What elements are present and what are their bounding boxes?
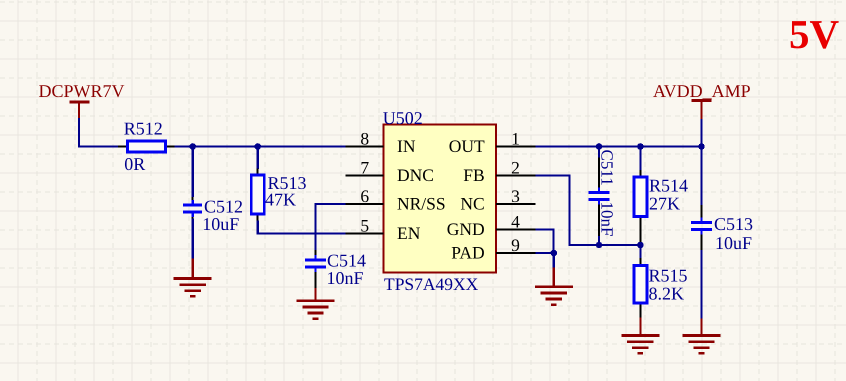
node junction OUT-R514 — [637, 143, 644, 150]
label 0R — [124, 154, 145, 174]
svg-text:NC: NC — [460, 194, 484, 214]
wire NR/SS to C514 — [316, 204, 346, 250]
svg-text:10uF: 10uF — [715, 233, 752, 253]
svg-text:EN: EN — [397, 223, 421, 243]
svg-text:NR/SS: NR/SS — [397, 194, 446, 214]
label C512 — [204, 196, 243, 216]
label C511 (rotated) — [598, 150, 617, 186]
svg-text:47K: 47K — [265, 189, 296, 209]
node junction FB-R514-R515 — [637, 242, 644, 249]
node junction OUT-AVDD — [698, 143, 705, 150]
svg-text:5V: 5V — [789, 11, 840, 57]
node junction IN-R513 — [254, 143, 261, 150]
svg-text:FB: FB — [463, 165, 484, 185]
svg-text:AVDD_AMP: AVDD_AMP — [653, 81, 751, 101]
svg-text:7: 7 — [360, 157, 369, 177]
label R514 — [649, 176, 688, 196]
label 10nF (C514) — [327, 268, 364, 288]
ground GND PAD — [535, 268, 573, 305]
capacitor C512 — [183, 197, 202, 219]
wire R513 to EN pin 5 — [258, 221, 346, 234]
svg-text:C513: C513 — [714, 214, 753, 234]
label 8.2K — [649, 284, 685, 304]
net label 5V — [789, 11, 840, 57]
label U502 — [383, 108, 423, 128]
svg-text:PAD: PAD — [451, 243, 484, 263]
wire OUT rail — [536, 145, 703, 147]
svg-text:1: 1 — [511, 128, 520, 148]
pin 2 (FB) — [463, 157, 535, 185]
label 10uF (C512) — [202, 214, 239, 234]
wire PAD to ground — [553, 253, 555, 268]
svg-text:27K: 27K — [649, 194, 680, 214]
wire PAD pin9 — [536, 252, 555, 254]
pin 4 (GND) — [447, 211, 536, 239]
power port DCPWR7V — [39, 81, 125, 119]
label R513 — [268, 173, 307, 193]
svg-text:8: 8 — [360, 128, 369, 148]
label 10uF (C513) — [715, 233, 752, 253]
svg-text:R514: R514 — [649, 176, 688, 196]
svg-text:TPS7A49XX: TPS7A49XX — [384, 274, 479, 294]
pin 3 (NC) — [460, 186, 535, 214]
svg-text:DNC: DNC — [397, 165, 434, 185]
wire R513 top — [257, 147, 259, 170]
svg-text:4: 4 — [511, 211, 520, 231]
svg-text:9: 9 — [511, 235, 520, 255]
label R512 — [124, 119, 163, 139]
pin 9 (PAD) — [451, 235, 535, 263]
label C514 — [327, 250, 366, 270]
label 10nF (C511, rotated) — [598, 202, 617, 237]
label R515 — [649, 266, 688, 286]
svg-text:DCPWR7V: DCPWR7V — [39, 81, 125, 101]
capacitor C514 — [305, 250, 326, 289]
wire R514-R515 node — [639, 242, 641, 259]
node junction OUT-C511 — [596, 143, 603, 150]
wire FB net — [536, 176, 641, 246]
capacitor C511 — [589, 158, 610, 237]
svg-text:R512: R512 — [124, 119, 163, 139]
resistor R512 — [118, 141, 175, 152]
node junction IN-C512 — [189, 143, 196, 150]
svg-text:U502: U502 — [383, 108, 423, 128]
label C513 — [714, 214, 753, 234]
svg-text:3: 3 — [511, 186, 520, 206]
ground GND C514 — [297, 288, 335, 319]
ground GND R515 — [621, 318, 659, 354]
wire C511 top — [598, 147, 600, 159]
svg-text:8.2K: 8.2K — [649, 284, 685, 304]
capacitor C513 — [691, 205, 712, 251]
svg-text:2: 2 — [511, 157, 520, 177]
resistor R513 — [251, 169, 264, 222]
svg-text:OUT: OUT — [449, 136, 485, 156]
pin 8 (IN) — [346, 128, 416, 156]
pin 5 (EN) — [346, 215, 421, 243]
wire GND pin4 to PAD — [536, 230, 554, 254]
svg-text:R515: R515 — [649, 266, 688, 286]
svg-text:0R: 0R — [124, 154, 145, 174]
svg-text:10nF: 10nF — [327, 268, 364, 288]
svg-text:IN: IN — [397, 136, 416, 156]
wire AVDD_AMP stem — [700, 119, 702, 147]
wire C512 top — [192, 147, 194, 198]
wire IN rail — [175, 145, 346, 147]
ground GND C513 — [683, 319, 721, 354]
pin 1 (OUT) — [449, 128, 536, 156]
svg-text:10uF: 10uF — [202, 214, 239, 234]
svg-text:C511: C511 — [598, 150, 617, 186]
pin 6 (NR/SS) — [346, 186, 446, 214]
wire DCPWR7V to IN rail — [78, 118, 118, 147]
label 27K — [649, 194, 680, 214]
node junction FB-C511 — [596, 242, 603, 249]
wire C511 bottom — [598, 236, 600, 245]
node junction PAD-GND — [551, 250, 558, 257]
wire C512 to ground — [192, 219, 194, 260]
svg-text:6: 6 — [360, 186, 369, 206]
wire C513 top — [700, 147, 702, 206]
pin 7 (DNC) — [346, 157, 434, 185]
svg-text:5: 5 — [360, 215, 369, 235]
ground GND C512 — [174, 259, 212, 297]
wire R514 top — [639, 147, 641, 171]
resistor R515 — [634, 258, 647, 318]
label TPS7A49XX — [384, 274, 479, 294]
wire C513 to ground — [700, 250, 702, 319]
op-amp U502 TPS7A49XX body — [384, 125, 497, 273]
svg-text:GND: GND — [447, 219, 485, 239]
resistor R514 — [634, 170, 647, 243]
power port AVDD_AMP — [653, 81, 751, 120]
label 47K — [265, 189, 296, 209]
svg-text:10nF: 10nF — [598, 202, 617, 237]
